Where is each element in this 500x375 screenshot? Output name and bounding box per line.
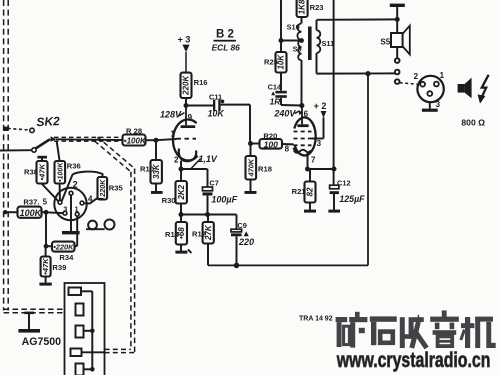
- svg-text:R35: R35: [109, 183, 124, 192]
- svg-text:R34: R34: [59, 253, 74, 262]
- svg-text:800 Ω: 800 Ω: [461, 117, 485, 127]
- svg-text:R16: R16: [194, 78, 208, 87]
- svg-text:C12: C12: [337, 179, 351, 188]
- svg-text:9: 9: [188, 113, 193, 122]
- svg-text:6: 6: [304, 110, 309, 119]
- svg-text:2: 2: [174, 155, 179, 164]
- svg-text:220: 220: [238, 237, 254, 247]
- svg-text:+ 3: + 3: [178, 35, 191, 45]
- svg-text:S11: S11: [322, 39, 335, 48]
- svg-text:5: 5: [43, 198, 48, 207]
- svg-text:R21: R21: [292, 187, 307, 196]
- svg-text:1K8: 1K8: [298, 0, 307, 14]
- svg-text:R25: R25: [264, 57, 279, 66]
- svg-text:www.crystalradio.cn: www.crystalradio.cn: [336, 349, 490, 372]
- svg-text:R36: R36: [67, 162, 81, 171]
- svg-text:C11: C11: [209, 92, 222, 101]
- svg-text:R39: R39: [52, 263, 66, 272]
- svg-text:•100K: •100K: [124, 137, 147, 146]
- svg-text:C7: C7: [209, 178, 218, 187]
- svg-text:B 2: B 2: [216, 29, 234, 41]
- svg-text:•47K: •47K: [41, 258, 50, 275]
- svg-text:3: 3: [317, 139, 322, 148]
- svg-text:R14: R14: [165, 230, 180, 239]
- svg-text:R12: R12: [192, 230, 206, 239]
- svg-text:•220K: •220K: [53, 243, 74, 252]
- svg-text:C9: C9: [237, 221, 246, 230]
- svg-text:1: 1: [440, 71, 445, 80]
- svg-text:128V: 128V: [160, 109, 182, 119]
- svg-text:S10: S10: [287, 23, 300, 32]
- svg-text:S9: S9: [293, 45, 302, 54]
- svg-text:R38: R38: [24, 168, 38, 177]
- svg-text:100: 100: [264, 139, 279, 149]
- svg-text:8: 8: [285, 145, 290, 154]
- svg-text:2: 2: [414, 72, 419, 81]
- svg-text:82: 82: [306, 187, 315, 196]
- svg-text:C14: C14: [268, 83, 282, 92]
- svg-text:R23: R23: [310, 3, 324, 12]
- svg-text:S5: S5: [380, 38, 390, 47]
- svg-text:R18: R18: [258, 164, 272, 173]
- svg-text:220K: 220K: [182, 75, 191, 96]
- svg-text:240V: 240V: [273, 109, 296, 119]
- svg-text:ECL 86: ECL 86: [212, 42, 241, 52]
- svg-text:2K2: 2K2: [177, 184, 186, 200]
- svg-text:100µF: 100µF: [211, 195, 237, 205]
- svg-text:AG7500: AG7500: [22, 336, 62, 348]
- svg-text:2: 2: [73, 180, 78, 190]
- svg-text:125µF: 125µF: [339, 194, 365, 204]
- svg-text:1: 1: [75, 207, 79, 214]
- svg-text:470K: 470K: [246, 158, 255, 177]
- svg-text:•47K: •47K: [38, 163, 47, 180]
- svg-text:4: 4: [88, 195, 93, 204]
- svg-text:100K: 100K: [20, 208, 43, 218]
- svg-text:TRA 14 92: TRA 14 92: [299, 315, 333, 322]
- svg-text:R 28: R 28: [126, 127, 142, 136]
- svg-text:3: 3: [63, 207, 67, 214]
- svg-text:•100K: •100K: [55, 162, 64, 183]
- svg-text:220K: 220K: [98, 179, 107, 198]
- svg-text:SK2: SK2: [36, 114, 60, 129]
- svg-text:+ 2: + 2: [314, 101, 327, 111]
- svg-text:R30: R30: [162, 196, 176, 205]
- svg-text:1: 1: [170, 130, 175, 139]
- svg-text:10K: 10K: [277, 54, 286, 70]
- svg-text:1,1V: 1,1V: [198, 154, 218, 164]
- svg-text:7: 7: [311, 156, 316, 165]
- svg-text:R37.: R37.: [23, 198, 39, 207]
- svg-text:1R: 1R: [270, 96, 281, 106]
- svg-text:R10: R10: [140, 165, 154, 174]
- svg-text:10K: 10K: [208, 109, 225, 119]
- svg-text:3: 3: [436, 100, 441, 109]
